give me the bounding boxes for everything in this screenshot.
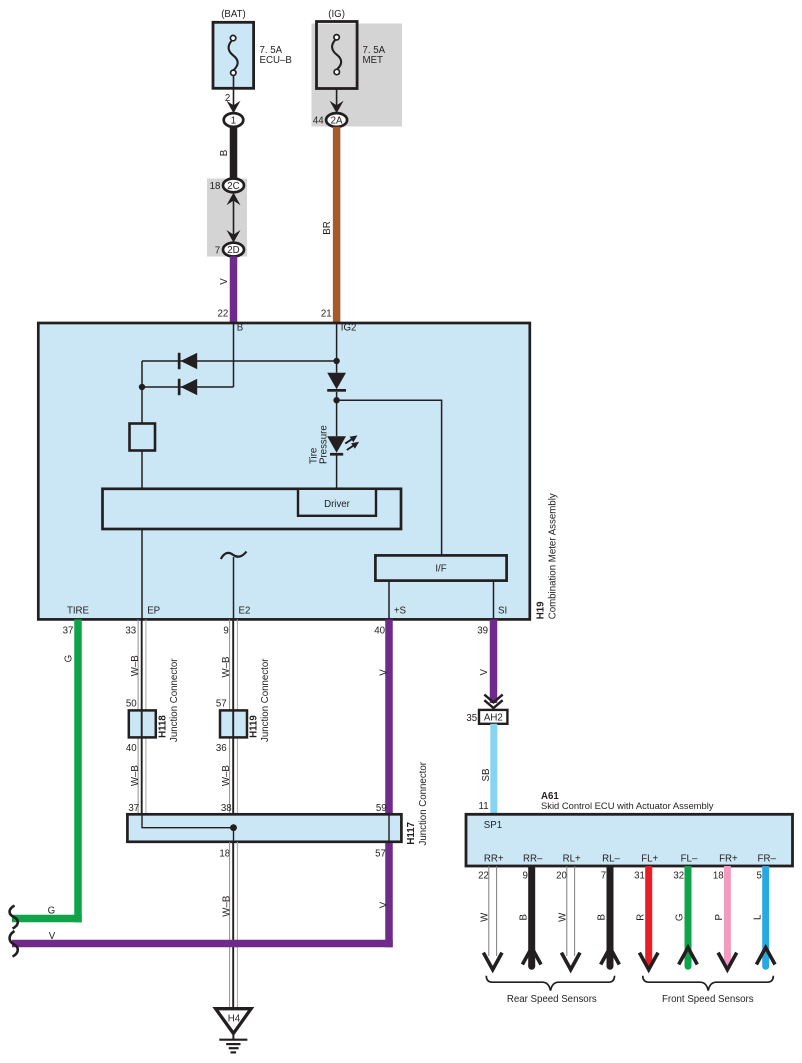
I/F box: [375, 555, 506, 580]
junction dot left rail: [139, 384, 145, 390]
svg-text:ECU–B: ECU–B: [260, 55, 292, 66]
combination meter assembly H19 box: [38, 323, 530, 619]
svg-text:18: 18: [713, 871, 724, 882]
wire W sensor RR+: [489, 866, 497, 956]
svg-text:2A: 2A: [331, 116, 343, 127]
wire V 2D to meter pin 22: [230, 256, 238, 323]
junction dot to I/F branch: [333, 397, 339, 403]
svg-text:SB: SB: [481, 769, 492, 782]
wire branch to I/F: [337, 400, 442, 555]
svg-text:FR+: FR+: [719, 854, 738, 865]
svg-text:2: 2: [225, 93, 230, 104]
svg-text:W: W: [479, 912, 490, 922]
connector 2A: [326, 113, 347, 127]
component square block: [130, 424, 156, 451]
svg-text:+S: +S: [394, 605, 407, 616]
diode D1: [178, 353, 197, 369]
svg-text:Rear Speed Sensors: Rear Speed Sensors: [507, 994, 597, 1005]
connector AH2: [479, 710, 507, 724]
diode D2: [178, 379, 197, 395]
svg-text:B: B: [219, 150, 230, 156]
svg-text:40: 40: [374, 625, 385, 636]
svg-text:H119: H119: [248, 715, 259, 738]
svg-text:H4: H4: [228, 1013, 241, 1024]
svg-text:BR: BR: [322, 221, 333, 234]
svg-text:V: V: [379, 901, 390, 908]
wire SB AH2 to A61 pin 11: [490, 724, 497, 815]
wire inside H117 at 59-57: [388, 814, 390, 842]
svg-text:W–B: W–B: [130, 765, 141, 786]
svg-text:RL+: RL+: [563, 854, 581, 865]
wire fuse ECU-B to connector 1: [227, 75, 241, 113]
terminal arrow RL+: [561, 953, 580, 970]
svg-text:(BAT): (BAT): [221, 9, 246, 20]
svg-text:W–B: W–B: [130, 655, 141, 676]
wire G horizontal to off-page: [12, 915, 82, 923]
wire SI internal: [493, 581, 495, 620]
ground symbol H4: [216, 1009, 252, 1053]
svg-text:7: 7: [215, 246, 220, 257]
svg-text:B: B: [597, 914, 608, 920]
svg-text:44: 44: [313, 115, 324, 126]
svg-text:39: 39: [477, 625, 488, 636]
skid control ECU A61 box: [466, 814, 793, 866]
svg-text:(IG): (IG): [328, 9, 345, 20]
junction dot IG2 row1: [333, 358, 339, 364]
svg-text:9: 9: [223, 625, 228, 636]
wire E2 internal: [233, 557, 235, 619]
svg-text:V: V: [49, 931, 56, 942]
svg-text:Combination Meter Assembly: Combination Meter Assembly: [547, 493, 558, 619]
svg-text:H117: H117: [406, 822, 417, 845]
svg-text:B: B: [237, 323, 243, 334]
svg-text:B: B: [518, 914, 529, 920]
wire G vertical from TIRE: [74, 619, 82, 922]
terminal arrow FL+: [639, 953, 658, 970]
terminal arrow RL&#8211;: [601, 948, 620, 965]
wire W-B from E2 pin 9: [230, 619, 238, 814]
wire V SI to AH2: [490, 619, 498, 703]
off-page squiggle V: [10, 931, 18, 957]
wire left rail: [141, 361, 143, 424]
gray harness panel behind IG fuse: [312, 24, 403, 127]
svg-text:36: 36: [216, 743, 227, 754]
svg-text:G: G: [63, 655, 74, 663]
svg-text:V: V: [479, 669, 490, 676]
value label 7.5A MET: [363, 45, 386, 66]
svg-text:57: 57: [375, 848, 386, 859]
junction connector H118 box: [129, 710, 156, 737]
terminal arrow FL&#8211;: [679, 948, 698, 965]
svg-text:18: 18: [210, 181, 221, 192]
wire V horizontal to off-page: [12, 940, 393, 948]
svg-text:MET: MET: [363, 55, 384, 66]
driver box: [298, 489, 376, 516]
svg-text:59: 59: [376, 803, 387, 814]
amplifier strip box: [103, 489, 402, 529]
wire D3 to LED: [336, 392, 338, 436]
wire stripe through H119: [232, 710, 234, 737]
svg-text:20: 20: [556, 871, 567, 882]
off-page squiggle G: [10, 906, 18, 929]
wire R sensor FL+: [645, 866, 652, 967]
wire P sensor FR+: [724, 866, 731, 967]
connector 2C: [223, 179, 244, 193]
svg-text:35: 35: [466, 713, 477, 724]
wire square to amplifier strip: [141, 451, 143, 490]
svg-text:V: V: [219, 278, 230, 285]
svg-text:5: 5: [757, 871, 762, 882]
value label 7.5A ECU-B: [260, 45, 292, 66]
wire inside H117 EP to E2: [142, 814, 234, 842]
svg-text:1: 1: [231, 116, 236, 127]
svg-text:50: 50: [126, 699, 137, 710]
svg-text:31: 31: [634, 871, 645, 882]
svg-text:Front Speed Sensors: Front Speed Sensors: [662, 994, 754, 1005]
svg-text:Pressure: Pressure: [318, 425, 329, 464]
svg-text:EP: EP: [147, 605, 160, 616]
wire B sensor RR&#8211;: [528, 866, 535, 970]
svg-text:V: V: [378, 669, 389, 676]
terminal arrow FR+: [718, 953, 737, 970]
svg-text:I/F: I/F: [435, 564, 446, 575]
junction connector H117 box: [127, 814, 401, 842]
wire B internal: [233, 323, 235, 387]
connector 1: [224, 113, 244, 127]
inline connector double chevron: [484, 695, 502, 708]
wire EP internal: [141, 529, 143, 619]
svg-text:L: L: [752, 914, 763, 920]
svg-text:H19: H19: [536, 601, 547, 619]
svg-text:P: P: [714, 914, 725, 920]
wire LED to driver: [336, 456, 338, 490]
svg-text:G: G: [48, 905, 56, 916]
svg-text:2C: 2C: [227, 181, 239, 192]
svg-text:W–B: W–B: [221, 657, 232, 678]
wire diode row 1: [142, 360, 337, 362]
svg-text:Driver: Driver: [324, 499, 351, 510]
svg-text:FR–: FR–: [758, 854, 777, 865]
svg-text:FL–: FL–: [681, 854, 698, 865]
terminal arrow RR+: [483, 953, 502, 970]
connector 2D: [223, 243, 244, 257]
svg-text:E2: E2: [239, 605, 251, 616]
svg-text:33: 33: [125, 625, 136, 636]
svg-text:2D: 2D: [227, 245, 239, 256]
terminal arrow RR&#8211;: [522, 948, 541, 965]
svg-text:Skid Control ECU with Actuator: Skid Control ECU with Actuator Assembly: [541, 800, 714, 811]
svg-text:21: 21: [321, 309, 332, 320]
LED tire pressure indicator: [327, 435, 359, 455]
svg-text:37: 37: [63, 625, 74, 636]
svg-text:22: 22: [478, 871, 489, 882]
svg-text:11: 11: [479, 801, 489, 812]
gray harness panel behind connectors 2C/2D: [207, 179, 247, 257]
brace front speed sensors: [643, 976, 774, 991]
wire W-B from EP pin 33: [138, 619, 146, 814]
fuse ECU-B (BAT): [213, 22, 254, 88]
svg-text:FL+: FL+: [641, 854, 658, 865]
svg-text:IG2: IG2: [341, 323, 357, 334]
svg-text:Junction Connector: Junction Connector: [260, 658, 271, 742]
svg-text:RL–: RL–: [602, 854, 620, 865]
wire +S internal: [388, 581, 390, 620]
svg-text:9: 9: [523, 871, 528, 882]
svg-text:57: 57: [216, 699, 227, 710]
svg-text:Junction Connector: Junction Connector: [418, 761, 429, 845]
svg-text:38: 38: [221, 803, 232, 814]
wire B sensor RL&#8211;: [607, 866, 614, 970]
svg-text:RR+: RR+: [484, 854, 504, 865]
svg-text:RR–: RR–: [523, 854, 543, 865]
svg-text:TIRE: TIRE: [67, 605, 90, 616]
label Tire Pressure: [309, 425, 330, 464]
wire stripe through H118: [141, 710, 143, 737]
wire L sensor FR&#8211;: [762, 866, 769, 970]
wire W sensor RL+: [567, 866, 575, 956]
svg-text:Junction Connector: Junction Connector: [169, 658, 180, 742]
wire diode row 2: [142, 386, 234, 388]
svg-text:W: W: [557, 912, 568, 922]
svg-text:R: R: [635, 914, 646, 921]
wire fuse MET to connector 2A: [330, 88, 344, 113]
svg-text:40: 40: [126, 743, 137, 754]
svg-text:G: G: [675, 914, 686, 922]
wire V vertical from +S: [385, 619, 393, 947]
junction dot inside H117: [230, 824, 237, 831]
harness wire 2C to 2D: [227, 193, 241, 243]
wire B connector 1 to 2C: [230, 127, 238, 179]
svg-text:W–B: W–B: [221, 896, 232, 917]
wire W-B H117 pin 18 to ground: [230, 842, 238, 1009]
wire G sensor FL&#8211;: [685, 866, 692, 970]
svg-text:22: 22: [218, 309, 229, 320]
svg-text:SP1: SP1: [484, 820, 502, 831]
svg-text:7: 7: [601, 871, 606, 882]
wire BR 2A to meter pin 21: [333, 127, 341, 323]
svg-text:32: 32: [673, 871, 684, 882]
fuse MET (IG): [317, 22, 358, 89]
terminal arrow FR&#8211;: [756, 948, 775, 965]
svg-text:SI: SI: [498, 605, 507, 616]
diode D3: [327, 373, 346, 392]
brace rear speed sensors: [486, 976, 614, 991]
svg-text:18: 18: [219, 848, 230, 859]
svg-text:AH2: AH2: [484, 713, 503, 724]
svg-text:37: 37: [128, 803, 139, 814]
coil squiggle E2: [221, 552, 247, 560]
junction connector H119 box: [220, 710, 247, 737]
svg-text:W–B: W–B: [221, 765, 232, 786]
svg-text:H118: H118: [158, 715, 169, 738]
wire IG2 internal: [336, 323, 338, 373]
